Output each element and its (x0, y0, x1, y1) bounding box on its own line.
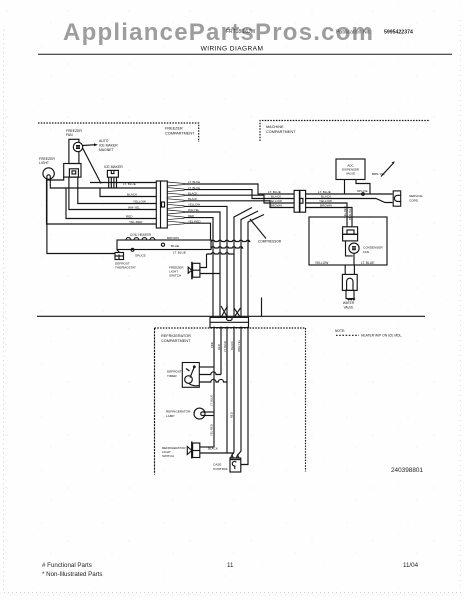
divider stub (261, 298, 263, 317)
header rule (38, 53, 452, 55)
water valve label (343, 301, 355, 309)
run capacitor block (343, 227, 358, 241)
scan edge noise bottom (4, 592, 462, 594)
refrigerator lamp L2 (194, 408, 214, 419)
wire coil heater blue (211, 247, 243, 248)
brn-yel label (372, 172, 385, 176)
svg-text:FRT18IL6JW: FRT18IL6JW (226, 29, 256, 35)
svg-text:BLACK: BLACK (230, 341, 234, 350)
svg-text:TIMER: TIMER (167, 374, 177, 378)
cold control label (213, 463, 228, 471)
svg-text:BLACK: BLACK (271, 194, 282, 198)
svg-text:YEL-RED: YEL-RED (343, 206, 347, 218)
wire labels left of connector (123, 182, 146, 224)
svg-text:LAMP: LAMP (166, 414, 174, 418)
svg-text:YEL-RED: YEL-RED (129, 220, 143, 224)
svg-text:BLUE: BLUE (171, 244, 179, 248)
wire timer pin1 (199, 366, 214, 368)
svg-text:WIRING DIAGRAM: WIRING DIAGRAM (201, 46, 264, 53)
wire timer pin2 (199, 372, 221, 375)
svg-text:SPLICE: SPLICE (357, 189, 368, 193)
wire riser 1 (213, 327, 215, 448)
svg-text:11/04: 11/04 (403, 562, 419, 569)
wire compressor run b (241, 211, 258, 317)
connector block J2 machine (294, 190, 306, 212)
freezer compartment label (165, 127, 195, 136)
long divider line (37, 315, 425, 317)
wire crossover above bar (221, 306, 241, 317)
svg-text:BROWN: BROWN (270, 203, 282, 207)
wire w6 down (184, 212, 220, 317)
svg-text:AUTO: AUTO (99, 139, 109, 143)
ADC dispenser valve (336, 159, 365, 180)
wire block to timer b (306, 208, 353, 227)
svg-text:BROWN: BROWN (320, 203, 332, 207)
wire labels left of block (268, 190, 282, 208)
svg-text:ORG-YEL: ORG-YEL (237, 339, 241, 352)
defrost timer label (167, 370, 182, 378)
svg-text:VALVE: VALVE (346, 172, 355, 176)
svg-text:COMPARTMENT: COMPARTMENT (161, 339, 191, 343)
wire lt-blue switch rail (207, 253, 235, 254)
wire block to splice and cord y194 (306, 193, 393, 195)
wire magnet to ice maker area (83, 148, 101, 183)
wire w7 down (184, 218, 213, 317)
refrigerator compartment boundary (155, 328, 306, 475)
refrigerator light switch S2 (187, 442, 234, 459)
wire compressor run a (234, 208, 252, 318)
svg-text:BLACK: BLACK (208, 447, 218, 451)
svg-text:LT. BLUE: LT. BLUE (268, 190, 281, 194)
svg-text:BLACK: BLACK (127, 192, 138, 196)
cold control CC1 (230, 455, 241, 472)
condenser fan label (363, 246, 384, 254)
svg-text:WH-YEL: WH-YEL (128, 205, 140, 209)
svg-text:240398801: 240398801 (391, 467, 423, 474)
svg-text:COMPARTMENT: COMPARTMENT (266, 130, 296, 134)
svg-text:YELLOW: YELLOW (269, 199, 282, 203)
svg-text:SPLICE: SPLICE (135, 254, 146, 258)
svg-text:BLACK: BLACK (321, 194, 332, 198)
svg-text:YELLOW: YELLOW (315, 261, 328, 265)
compressor callout arrow (250, 219, 266, 239)
splice dot (362, 193, 365, 196)
wire labels right of block (318, 190, 332, 208)
refrigerator lamp label (166, 410, 191, 418)
ice maker label (104, 165, 123, 169)
defrost timer T2 (182, 363, 199, 388)
svg-text:YELLOW: YELLOW (319, 199, 332, 203)
wire water valve leads (344, 265, 346, 274)
coil heater label (130, 233, 152, 237)
svg-text:BRN-YEL: BRN-YEL (348, 208, 352, 220)
defrost thermostat label (115, 262, 136, 270)
svg-text:PINK: PINK (210, 342, 214, 348)
note (335, 329, 402, 338)
svg-text:AppliancePartsPros.com: AppliancePartsPros.com (63, 19, 373, 46)
svg-text:RED: RED (230, 412, 234, 418)
wire ADC lead 2 (356, 180, 370, 195)
svg-text:MAGNET: MAGNET (99, 148, 114, 152)
svg-text:LT. BLUE: LT. BLUE (210, 395, 214, 406)
svg-text:YELLOW: YELLOW (133, 199, 146, 203)
wire riser 4 (232, 327, 234, 456)
wire yel-red wrap (47, 177, 157, 224)
wire compressor run c (248, 215, 264, 318)
auto ice maker magnet label (99, 139, 118, 152)
dispenser arrow (381, 161, 395, 176)
freezer fan label (66, 129, 82, 137)
rotated wire labels (343, 206, 352, 220)
freezer compartment boundary (38, 123, 199, 142)
svg-text:MACHINE: MACHINE (266, 125, 284, 129)
coil heater R1 (117, 238, 211, 250)
wire w1 to machine (184, 184, 295, 194)
svg-text:LT. BLUE: LT. BLUE (318, 190, 331, 194)
fan connector plug (64, 164, 81, 189)
svg-text:ICE MAKER: ICE MAKER (104, 165, 123, 169)
svg-text:ICE MAKER: ICE MAKER (99, 143, 118, 147)
svg-text:THERMOSTAT: THERMOSTAT (115, 266, 136, 270)
svg-text:11: 11 (227, 562, 234, 569)
svg-text:SWITCH: SWITCH (169, 274, 181, 278)
svg-text:FAN: FAN (363, 250, 369, 254)
svg-text:LIGHT: LIGHT (39, 161, 49, 165)
wire riser 5 (238, 327, 241, 456)
svg-text:FAN: FAN (66, 133, 73, 137)
svg-text:VALVE: VALVE (344, 305, 354, 309)
freezer light L1 (43, 168, 54, 184)
wire block to cord y198.5 (306, 199, 393, 203)
svg-text:* Non-Illustrated Parts: * Non-Illustrated Parts (42, 571, 103, 578)
defrost thermostat (115, 250, 124, 260)
wire labels right of connector (188, 180, 201, 223)
svg-text:REFRIGERATOR: REFRIGERATOR (161, 334, 191, 338)
wire freezer light to bus (50, 184, 62, 188)
svg-text:HEATER W/P ON ICE MDL.: HEATER W/P ON ICE MDL. (361, 334, 402, 338)
wire yellow wrap (78, 188, 156, 204)
wire w2 to machine (184, 190, 295, 199)
freezer light label (39, 157, 55, 165)
scan edge noise right (460, 20, 462, 590)
svg-text:LT. BLUE: LT. BLUE (173, 250, 186, 254)
freezer fan M1 (69, 139, 83, 163)
scan edge noise left (3, 30, 5, 592)
wire wh-yel wrap (69, 188, 156, 210)
wire coil heater brown (211, 240, 250, 241)
ADC dispenser valve label (342, 164, 360, 176)
service cord P1 (393, 191, 401, 206)
machine box bottom labels (315, 261, 374, 265)
svg-text:LT. BLUE: LT. BLUE (361, 261, 374, 265)
svg-text:CONTROL: CONTROL (213, 467, 228, 471)
svg-text:LT. BLUE: LT. BLUE (123, 182, 136, 186)
wire black to connector (100, 188, 156, 197)
connector J1 freezer (156, 181, 167, 228)
wire w3 to machine (184, 195, 295, 203)
wire block to timer a (306, 203, 348, 227)
wire ADC lead 1 (344, 180, 346, 195)
wire bus y=188 (62, 187, 156, 189)
machine compartment boundary (260, 121, 430, 142)
wire riser 2 (220, 327, 222, 375)
svg-text:FREEZER: FREEZER (165, 127, 183, 131)
note dashed sample (336, 334, 359, 336)
freezer light switch S1 (188, 254, 220, 279)
water valve V1 (342, 274, 357, 300)
wire red wrap (66, 188, 156, 219)
svg-text:# Functional Parts: # Functional Parts (42, 562, 92, 569)
wire freezer light down (47, 184, 115, 254)
wire w4 to machine (184, 201, 295, 208)
svg-text:RED: RED (126, 214, 133, 218)
wire lt-blue to connector (90, 182, 156, 184)
ice maker (107, 170, 118, 188)
coil heater wire labels (167, 236, 186, 254)
svg-text:SWITCH: SWITCH (162, 454, 174, 458)
svg-text:COMPARTMENT: COMPARTMENT (165, 132, 195, 136)
svg-text:Publication No.: Publication No. (336, 30, 371, 36)
wire timer pin3 (199, 379, 227, 382)
compressor label (258, 240, 282, 244)
svg-text:COIL HEATER: COIL HEATER (130, 233, 152, 237)
svg-text:LT. BLUE: LT. BLUE (223, 341, 227, 352)
svg-text:RED: RED (217, 344, 221, 350)
wire riser 6 (241, 327, 248, 465)
refrigerator compartment label (161, 334, 191, 343)
svg-text:NOTE:: NOTE: (335, 329, 345, 333)
service cord label (409, 194, 423, 202)
svg-text:COMPRESSOR: COMPRESSOR (258, 240, 282, 244)
svg-text:BROWN: BROWN (167, 236, 179, 240)
crimp terminals fan-out (167, 182, 184, 225)
machine compartment label (266, 125, 296, 134)
condenser fan M2 (346, 241, 360, 265)
lt blue rotated label (210, 395, 234, 436)
refrigerator light switch label (162, 446, 186, 458)
black label (208, 447, 218, 451)
svg-text:CORD: CORD (409, 198, 419, 202)
arrow to auto ice maker magnet (83, 143, 98, 146)
machine inner box (309, 217, 387, 265)
wire w8 to coil heater (184, 223, 211, 240)
freezer light switch label (169, 266, 184, 278)
wire riser 3 (226, 327, 228, 454)
bulkhead connector bar J3 (210, 317, 249, 327)
rotated riser labels (210, 339, 241, 352)
svg-text:5995422374: 5995422374 (384, 30, 413, 36)
wire w5 down (184, 206, 227, 317)
svg-text:YEL-RED: YEL-RED (210, 424, 214, 436)
splice (131, 248, 134, 251)
